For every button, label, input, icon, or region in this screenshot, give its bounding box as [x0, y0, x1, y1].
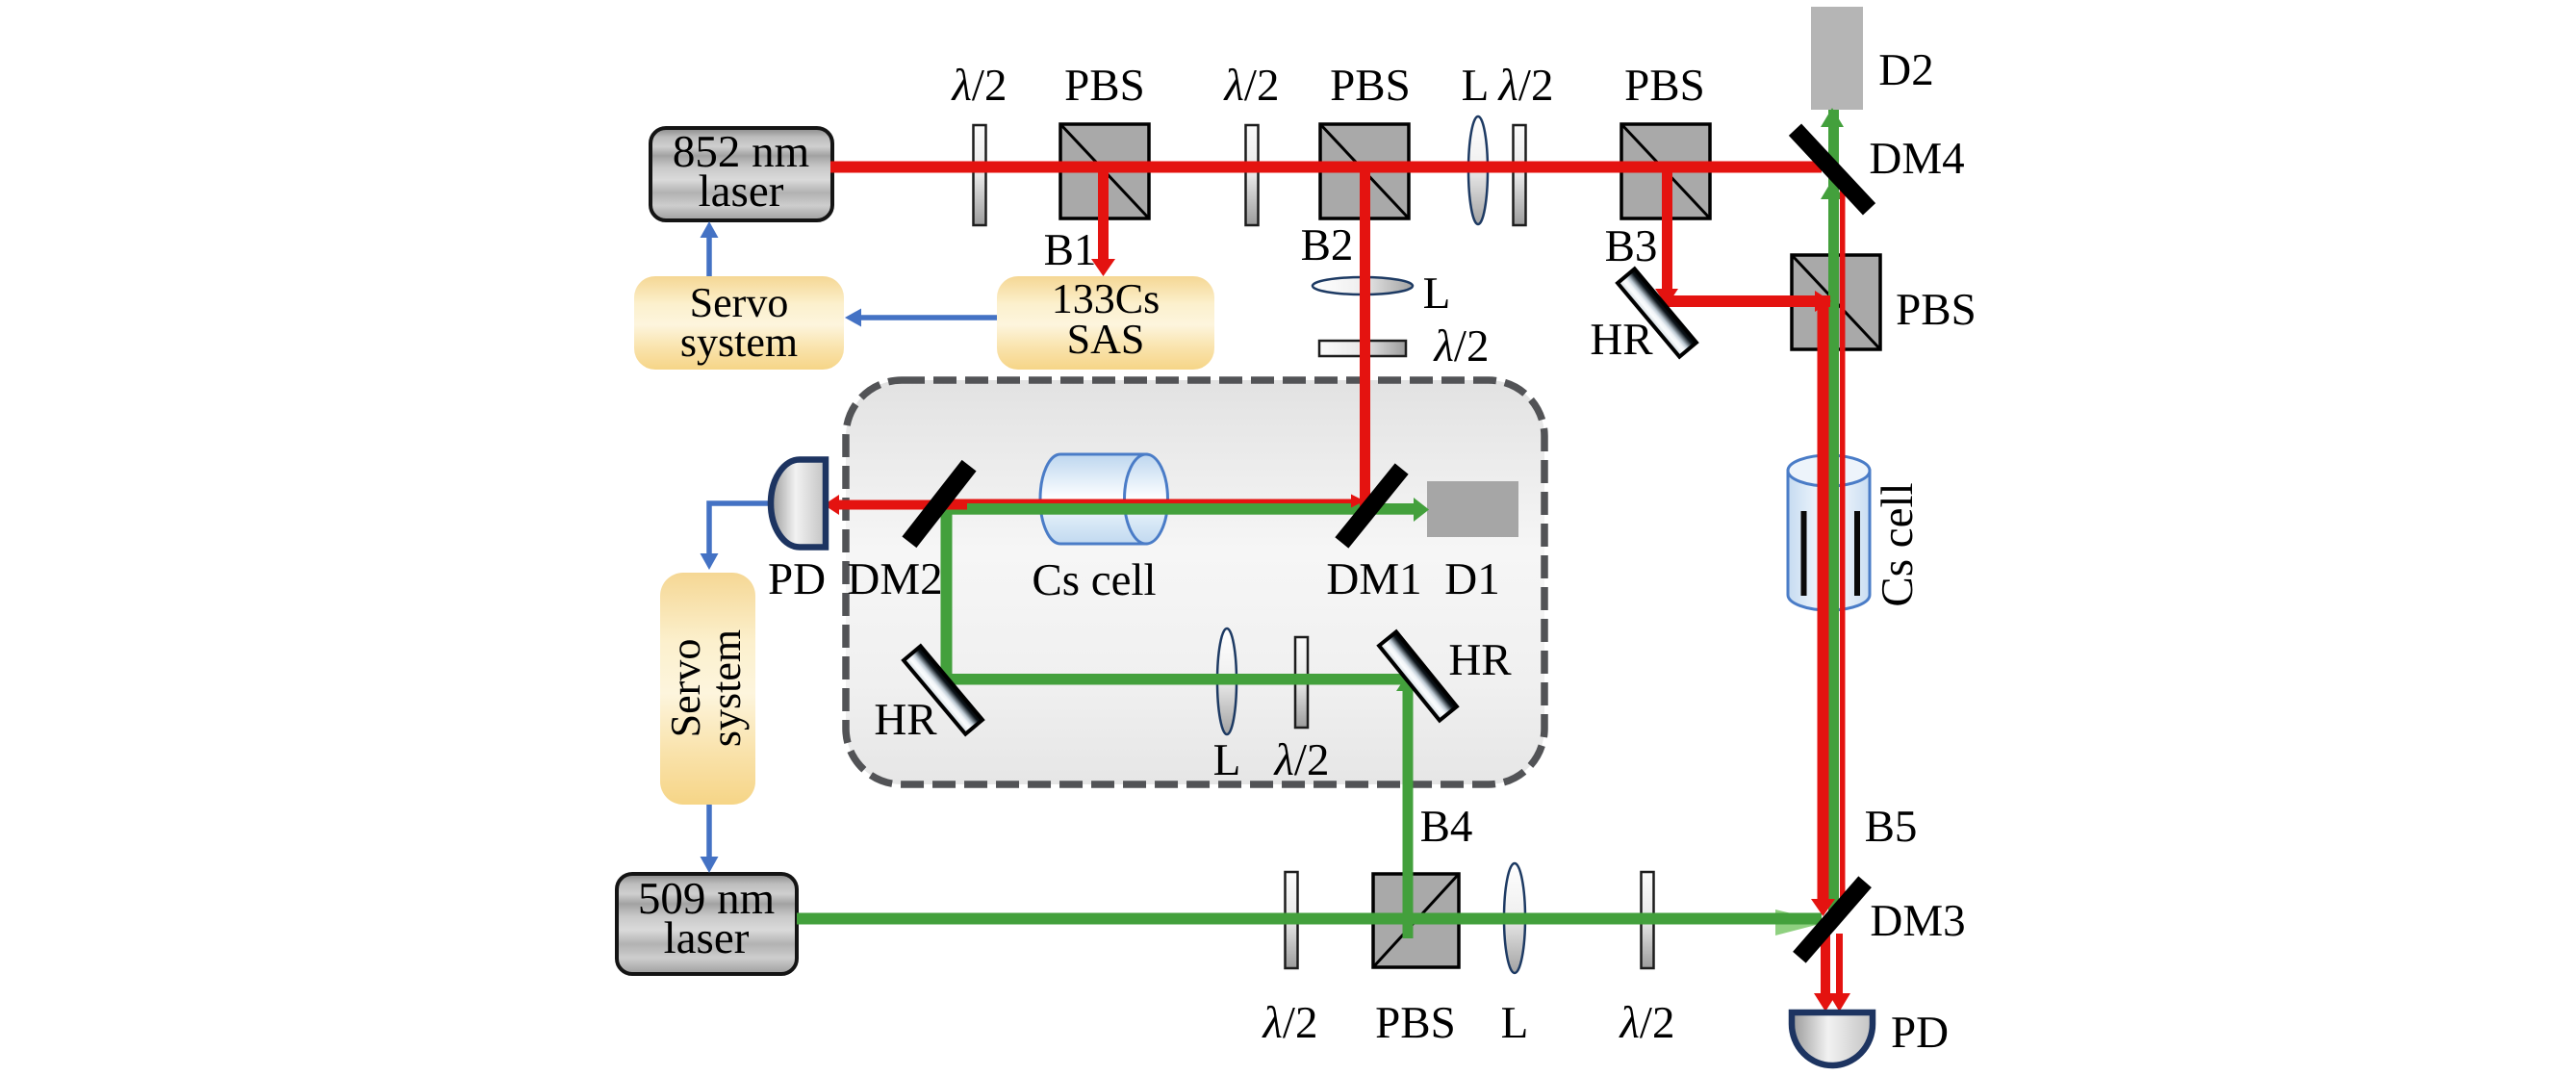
- svg-text:λ/2: λ/2: [951, 61, 1007, 111]
- svg-text:PBS: PBS: [1896, 285, 1977, 335]
- svg-text:DM4: DM4: [1869, 134, 1964, 184]
- svg-text:Cs cell: Cs cell: [1873, 482, 1923, 606]
- svg-text:L: L: [1213, 735, 1241, 785]
- svg-text:L: L: [1423, 269, 1451, 319]
- svg-text:L: L: [1462, 61, 1490, 111]
- svg-text:D1: D1: [1444, 554, 1499, 604]
- svg-text:B2: B2: [1301, 220, 1354, 270]
- svg-text:laser: laser: [664, 913, 750, 963]
- svg-text:B1: B1: [1044, 225, 1097, 275]
- svg-text:system: system: [702, 629, 750, 747]
- svg-text:DM3: DM3: [1870, 896, 1965, 946]
- svg-text:L: L: [1501, 998, 1529, 1048]
- svg-text:λ/2: λ/2: [1262, 998, 1318, 1048]
- svg-text:HR: HR: [1590, 315, 1653, 365]
- svg-text:λ/2: λ/2: [1497, 61, 1554, 111]
- svg-text:HR: HR: [874, 695, 937, 745]
- svg-text:λ/2: λ/2: [1433, 321, 1490, 371]
- svg-text:Cs cell: Cs cell: [1032, 555, 1156, 605]
- svg-text:B4: B4: [1420, 802, 1473, 852]
- svg-text:λ/2: λ/2: [1223, 61, 1280, 111]
- svg-text:PD: PD: [768, 554, 826, 604]
- svg-text:SAS: SAS: [1067, 316, 1145, 363]
- svg-text:PBS: PBS: [1375, 998, 1456, 1048]
- svg-text:PBS: PBS: [1624, 61, 1705, 111]
- svg-text:λ/2: λ/2: [1273, 735, 1330, 785]
- svg-text:DM1: DM1: [1326, 554, 1421, 604]
- svg-text:system: system: [680, 319, 798, 366]
- svg-text:D2: D2: [1878, 45, 1933, 95]
- svg-text:B5: B5: [1865, 802, 1918, 852]
- svg-text:laser: laser: [699, 167, 784, 217]
- svg-text:PBS: PBS: [1330, 61, 1411, 111]
- svg-text:PBS: PBS: [1064, 61, 1145, 111]
- svg-text:HR: HR: [1448, 635, 1512, 685]
- svg-text:B3: B3: [1605, 221, 1658, 271]
- svg-text:DM2: DM2: [847, 554, 942, 604]
- svg-text:λ/2: λ/2: [1619, 998, 1675, 1048]
- svg-text:PD: PD: [1891, 1008, 1949, 1058]
